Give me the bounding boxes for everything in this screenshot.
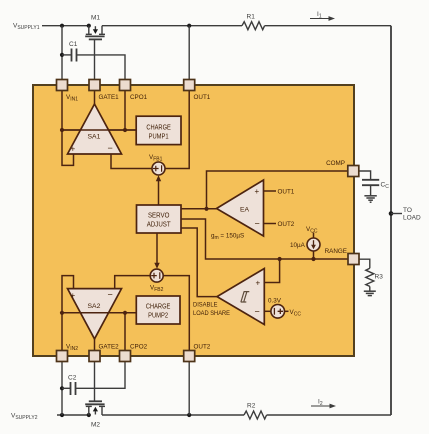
svg-text:LOAD: LOAD bbox=[403, 215, 421, 222]
wire: VIN1 to SA1 + input bbox=[62, 91, 74, 166]
label R1 bbox=[247, 14, 256, 21]
svg-text:−: − bbox=[255, 307, 260, 317]
svg-text:ADJUST: ADJUST bbox=[147, 222, 172, 229]
svg-text:DISABLE: DISABLE bbox=[193, 302, 218, 309]
label pin VIN2 bbox=[66, 344, 78, 352]
charge pump 2 box bbox=[136, 296, 180, 324]
wire: GATE2 pin to M2 gate bbox=[94, 362, 96, 402]
node: EA output / COMP junction bbox=[204, 207, 208, 211]
wire: M1 gate to GATE1 pin bbox=[94, 39, 96, 80]
node: OUT2 tap on bottom rail bbox=[187, 413, 191, 417]
label pin CPO2 bbox=[130, 344, 148, 351]
current arrow I2 bbox=[311, 404, 336, 409]
wire: OUT2 pin drop to rail bbox=[188, 362, 190, 416]
label C2 bbox=[68, 375, 77, 382]
svg-text:PUMP1: PUMP1 bbox=[149, 134, 169, 141]
pin RANGE bbox=[348, 254, 359, 265]
svg-text:OUT2: OUT2 bbox=[278, 221, 295, 228]
node: TO LOAD tap bbox=[389, 211, 402, 216]
svg-text:SERVO: SERVO bbox=[148, 213, 170, 220]
wire: R3 to ground bbox=[369, 286, 371, 290]
wire: servo adjust to VFB1 (arrow up) bbox=[156, 175, 161, 205]
summer VFB2 bbox=[150, 269, 163, 282]
wire: servo adjust to EA output node bbox=[181, 208, 217, 210]
svg-text:OUT1: OUT1 bbox=[278, 189, 295, 196]
node: C2 tap bbox=[60, 386, 64, 390]
svg-text:M2: M2 bbox=[91, 422, 100, 429]
svg-text:−: − bbox=[108, 290, 113, 300]
wire: bottom rail from M2 drain to R2 bbox=[102, 414, 244, 416]
wire: VIN2/CPO2 rail to charge pump 2 bbox=[62, 312, 136, 314]
wire: servo adjust to RANGE rail bbox=[181, 219, 348, 259]
label VSUPPLY1 bbox=[13, 23, 40, 32]
svg-text:0.3V: 0.3V bbox=[268, 298, 282, 305]
label OUT2 net at EA bbox=[278, 221, 295, 228]
svg-text:GATE2: GATE2 bbox=[99, 344, 120, 351]
label R3 bbox=[375, 274, 384, 281]
svg-text:+: + bbox=[71, 291, 76, 300]
svg-text:COMP: COMP bbox=[326, 160, 345, 167]
svg-text:CPO1: CPO1 bbox=[130, 94, 148, 101]
label M2 bbox=[91, 422, 100, 429]
servo adjust box bbox=[137, 205, 182, 233]
svg-text:R2: R2 bbox=[247, 403, 256, 410]
pin CPO2 bbox=[120, 351, 131, 362]
svg-text:VSUPPLY1: VSUPPLY1 bbox=[13, 23, 40, 32]
node: OUT1 tap on top rail bbox=[187, 24, 191, 28]
wire: OUT1 pin riser to rail bbox=[188, 26, 190, 80]
wire: comparator + input to RANGE rail bbox=[264, 259, 279, 283]
svg-text:+: + bbox=[255, 187, 260, 196]
wire: top supply rail left bbox=[42, 25, 89, 27]
wire: VIN1/CP1 rail crossing over SA1 bbox=[62, 129, 136, 131]
node: VIN2 tap on bottom rail bbox=[60, 413, 64, 417]
label R2 bbox=[247, 403, 256, 410]
svg-text:PUMP2: PUMP2 bbox=[148, 313, 168, 320]
wire: CPO1 pin drop bbox=[124, 91, 126, 131]
pin VIN1 bbox=[57, 80, 68, 91]
wire: COMP pin to CC bbox=[359, 171, 371, 179]
label VSUPPLY2 bbox=[11, 413, 38, 422]
wire: EA + input stub bbox=[264, 190, 277, 192]
svg-text:+: + bbox=[71, 145, 76, 154]
label pin GATE2 bbox=[99, 344, 120, 351]
svg-text:10µA: 10µA bbox=[290, 242, 306, 249]
transistor M1 (PMOS) bbox=[85, 26, 105, 40]
label OUT1 net at EA bbox=[278, 189, 295, 196]
label pin OUT1 bbox=[194, 94, 211, 101]
svg-text:RANGE: RANGE bbox=[325, 248, 347, 255]
svg-text:CC: CC bbox=[381, 182, 390, 191]
label pin GATE1 bbox=[99, 94, 120, 101]
summer VFB1 bbox=[152, 162, 165, 175]
node: VIN1/C1 tap on top rail bbox=[60, 24, 64, 28]
svg-text:−: − bbox=[108, 143, 113, 153]
svg-text:−: − bbox=[255, 219, 260, 229]
label TO LOAD bbox=[403, 207, 421, 222]
wire: top rail from R1 to right corner bbox=[265, 25, 391, 27]
label pin OUT2 bbox=[194, 344, 211, 351]
wire: EA output node to COMP pin bbox=[207, 171, 349, 209]
pin CPO1 bbox=[120, 80, 131, 91]
ground (R3) bbox=[364, 291, 376, 295]
capacitor C2 bbox=[62, 362, 125, 396]
voltage source 0.3V bbox=[271, 305, 289, 319]
IC body U1 bbox=[33, 85, 354, 356]
comparator (load share disable) bbox=[217, 269, 264, 325]
svg-text:OUT2: OUT2 bbox=[194, 344, 211, 351]
wire: VIN2 pin drop to rail bbox=[61, 362, 63, 416]
wire: VIN2 to SA2 + input bbox=[62, 276, 74, 351]
node: VIN2 / CP2 rail junction bbox=[60, 311, 64, 315]
node: comparator + branch on RANGE rail bbox=[278, 257, 282, 261]
wire: OUT1 pin to VFB1 summer bbox=[165, 91, 189, 169]
resistor R2 bbox=[244, 411, 267, 419]
wire: servo adjust to comparator output bbox=[181, 228, 217, 297]
wire: SA2 - input to VFB2 summer bbox=[115, 276, 151, 289]
label VFB1 bbox=[149, 154, 163, 162]
label I2 bbox=[318, 399, 323, 407]
current arrow I1 bbox=[310, 16, 335, 21]
svg-text:M1: M1 bbox=[91, 15, 100, 22]
label I1 bbox=[317, 11, 322, 19]
wire: top supply rail from M1 drain to R1 bbox=[102, 25, 242, 27]
svg-text:VSUPPLY2: VSUPPLY2 bbox=[11, 413, 38, 422]
label 0.3V bbox=[268, 298, 282, 305]
pin GATE1 bbox=[89, 80, 100, 91]
pin OUT2 bbox=[184, 351, 195, 362]
wire: VIN1/CPO1 rail to charge pump 1 bbox=[62, 129, 136, 131]
svg-text:SA1: SA1 bbox=[88, 134, 101, 141]
label DISABLE LOAD SHARE bbox=[193, 302, 230, 318]
svg-text:C1: C1 bbox=[69, 41, 78, 48]
svg-text:LOAD SHARE: LOAD SHARE bbox=[193, 310, 230, 317]
capacitor C1 bbox=[62, 49, 125, 81]
label gm = 150uS bbox=[211, 233, 244, 241]
transistor M2 (PMOS) bbox=[85, 401, 105, 415]
wire: SA1 - input to VFB1 summer bbox=[111, 154, 152, 169]
svg-text:EA: EA bbox=[240, 207, 250, 214]
wire: EA - input stub bbox=[264, 223, 277, 225]
label pin CPO1 bbox=[130, 94, 148, 101]
svg-text:TO: TO bbox=[403, 207, 412, 214]
wire: bottom rail from R2 to right corner bbox=[267, 414, 391, 416]
pin COMP bbox=[348, 166, 359, 177]
op-amp SA2 bbox=[68, 289, 122, 339]
wire: VIN2/CP2 rail crossing over SA2 bbox=[62, 312, 136, 314]
label pin COMP bbox=[326, 160, 345, 167]
wire: servo adjust to VFB2 (arrow down) bbox=[154, 233, 159, 269]
node: M1 source junction bbox=[87, 24, 91, 28]
wire: right bus to load bbox=[390, 26, 392, 415]
charge pump 1 box bbox=[136, 116, 181, 144]
resistor R1 bbox=[242, 22, 265, 30]
node: M2 source junction bbox=[87, 413, 91, 417]
label VFB2 bbox=[150, 285, 164, 293]
node: 10uA source on RANGE rail bbox=[311, 257, 315, 261]
ground (CC) bbox=[364, 196, 376, 202]
label pin RANGE bbox=[325, 248, 347, 255]
svg-text:C2: C2 bbox=[68, 375, 77, 382]
label 10uA bbox=[290, 242, 306, 249]
svg-text:CHARGE: CHARGE bbox=[146, 304, 171, 311]
op-amp SA1 bbox=[68, 104, 122, 154]
node: CPO2 junction bbox=[123, 311, 127, 315]
label pin VIN1 bbox=[66, 94, 78, 102]
node: VIN1 / CP1 rail junction bbox=[60, 128, 64, 132]
svg-text:GATE1: GATE1 bbox=[99, 94, 120, 101]
label VCC (0.3V source) bbox=[290, 309, 302, 317]
node: CPO1 junction bbox=[123, 128, 127, 132]
label CC bbox=[381, 182, 390, 191]
wire: bottom supply rail left bbox=[57, 414, 89, 416]
svg-text:R1: R1 bbox=[247, 14, 256, 21]
pin OUT1 bbox=[184, 80, 195, 91]
pin VIN2 bbox=[57, 351, 68, 362]
wire: RANGE pin to R3 bbox=[360, 259, 370, 268]
op-amp EA bbox=[217, 180, 264, 236]
label VCC (10uA source) bbox=[306, 226, 318, 234]
wire: comparator - input stub bbox=[264, 310, 271, 312]
current source 10uA bbox=[307, 233, 320, 260]
wire: VIN1 pin drop from rail bbox=[61, 26, 63, 80]
pin GATE2 bbox=[89, 351, 100, 362]
label M1 bbox=[91, 15, 100, 22]
resistor R3 bbox=[366, 268, 374, 286]
svg-text:OUT1: OUT1 bbox=[194, 94, 211, 101]
svg-text:CPO2: CPO2 bbox=[130, 344, 148, 351]
svg-text:SA2: SA2 bbox=[88, 303, 101, 310]
capacitor CC bbox=[362, 180, 379, 196]
wire: SA2 output to GATE2 pin bbox=[94, 339, 96, 351]
node: C1 tap bbox=[60, 53, 64, 57]
wire: OUT2 pin to VFB2 summer bbox=[163, 276, 189, 351]
wire: CPO2 pin riser bbox=[124, 313, 126, 351]
label C1 bbox=[69, 41, 78, 48]
wire: SA1 output to GATE1 pin bbox=[94, 91, 96, 105]
svg-text:CHARGE: CHARGE bbox=[146, 125, 171, 132]
svg-text:R3: R3 bbox=[375, 274, 384, 281]
svg-text:+: + bbox=[256, 279, 261, 288]
